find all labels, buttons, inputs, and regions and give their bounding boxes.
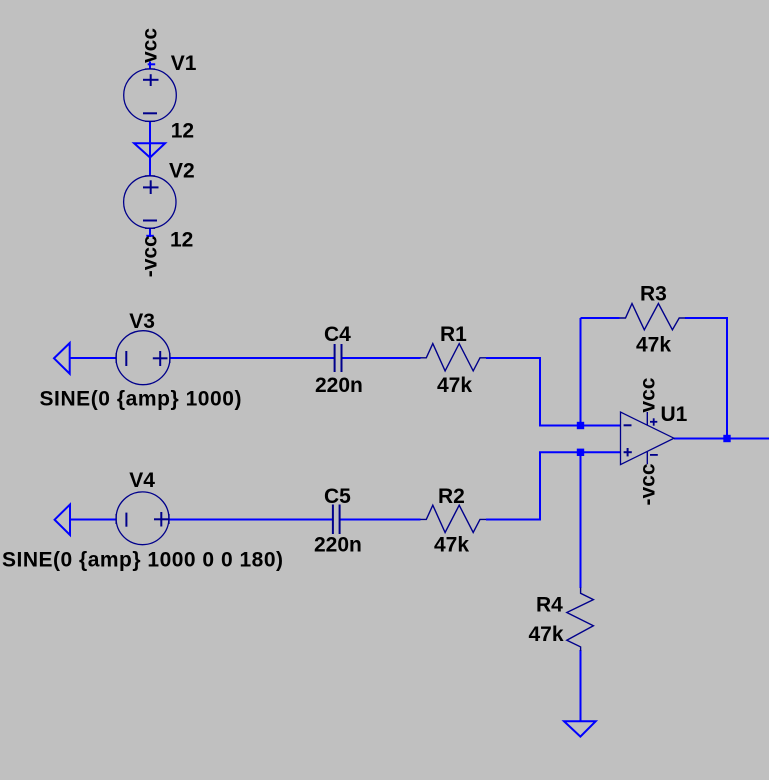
svg-text:220n: 220n — [314, 534, 362, 557]
svg-text:V1: V1 — [171, 52, 197, 75]
svg-text:R4: R4 — [536, 594, 563, 617]
svg-text:220n: 220n — [315, 374, 363, 397]
svg-text:47k: 47k — [529, 623, 564, 646]
svg-text:V4: V4 — [129, 469, 155, 492]
svg-text:47k: 47k — [636, 333, 671, 356]
svg-text:-vcc: -vcc — [636, 463, 659, 505]
svg-text:12: 12 — [171, 119, 194, 142]
svg-text:vcc: vcc — [139, 28, 162, 63]
svg-text:U1: U1 — [661, 403, 688, 426]
svg-text:SINE(0 {amp} 1000): SINE(0 {amp} 1000) — [40, 387, 242, 410]
svg-text:-vcc: -vcc — [139, 235, 162, 277]
svg-text:V2: V2 — [169, 159, 195, 182]
svg-text:R3: R3 — [640, 283, 667, 306]
svg-text:SINE(0 {amp} 1000 0 0 180): SINE(0 {amp} 1000 0 0 180) — [2, 549, 283, 572]
svg-text:12: 12 — [170, 229, 193, 252]
svg-text:47k: 47k — [437, 374, 472, 397]
svg-text:47k: 47k — [434, 534, 469, 557]
svg-text:C4: C4 — [324, 323, 351, 346]
svg-text:vcc: vcc — [636, 377, 659, 412]
svg-text:C5: C5 — [324, 485, 351, 508]
svg-text:V3: V3 — [129, 310, 155, 333]
svg-text:R1: R1 — [440, 323, 467, 346]
svg-text:R2: R2 — [438, 485, 465, 508]
